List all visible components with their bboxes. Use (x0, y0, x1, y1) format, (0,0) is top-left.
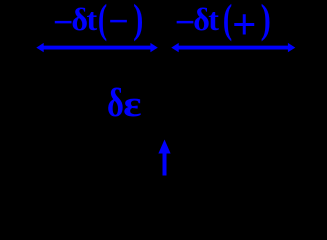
label delta-epsilon: epsilon (123, 83, 141, 124)
svg-text:−: − (175, 2, 196, 42)
label -dt(+) right: close paren (261, 0, 271, 41)
label delta-epsilon (107, 80, 124, 125)
svg-text:ε: ε (123, 83, 141, 124)
up arrow (158, 140, 170, 176)
double arrow right (171, 43, 295, 52)
svg-text:−: − (53, 2, 74, 42)
svg-text:δt: δt (193, 1, 219, 37)
svg-text:δt: δt (71, 1, 97, 37)
label -dt(-) left: open paren (98, 0, 107, 42)
svg-text:−: − (108, 1, 129, 41)
label -dt(+) right: open paren (223, 0, 232, 42)
svg-text:δ: δ (107, 80, 124, 125)
svg-text:): ) (133, 0, 143, 41)
svg-text:(: ( (98, 0, 107, 42)
label -dt(-) left: close paren (133, 0, 143, 41)
svg-text:): ) (261, 0, 271, 41)
svg-text:(: ( (223, 0, 232, 42)
svg-text:+: + (232, 2, 257, 49)
double arrow left (36, 43, 158, 52)
